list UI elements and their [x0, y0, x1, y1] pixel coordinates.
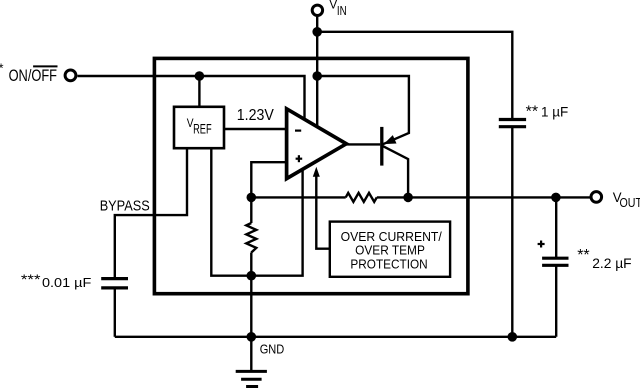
svg-text:BYPASS: BYPASS	[100, 199, 150, 215]
svg-text:0.01 µF: 0.01 µF	[42, 276, 92, 290]
svg-text:OUT: OUT	[620, 196, 640, 210]
svg-text:1 µF: 1 µF	[541, 104, 568, 119]
svg-text:PROTECTION: PROTECTION	[350, 257, 427, 272]
svg-text:2.2 µF: 2.2 µF	[592, 256, 631, 271]
svg-text:**: **	[526, 103, 538, 120]
svg-text:*: *	[0, 61, 4, 76]
svg-text:***: ***	[21, 271, 41, 287]
svg-text:IN: IN	[337, 4, 347, 18]
svg-text:OVER TEMP: OVER TEMP	[355, 243, 425, 258]
svg-text:ON/OFF: ON/OFF	[9, 67, 57, 85]
svg-text:GND: GND	[260, 343, 285, 357]
svg-text:REF: REF	[193, 122, 212, 137]
svg-text:1.23V: 1.23V	[237, 107, 274, 124]
svg-text:**: **	[577, 247, 589, 264]
